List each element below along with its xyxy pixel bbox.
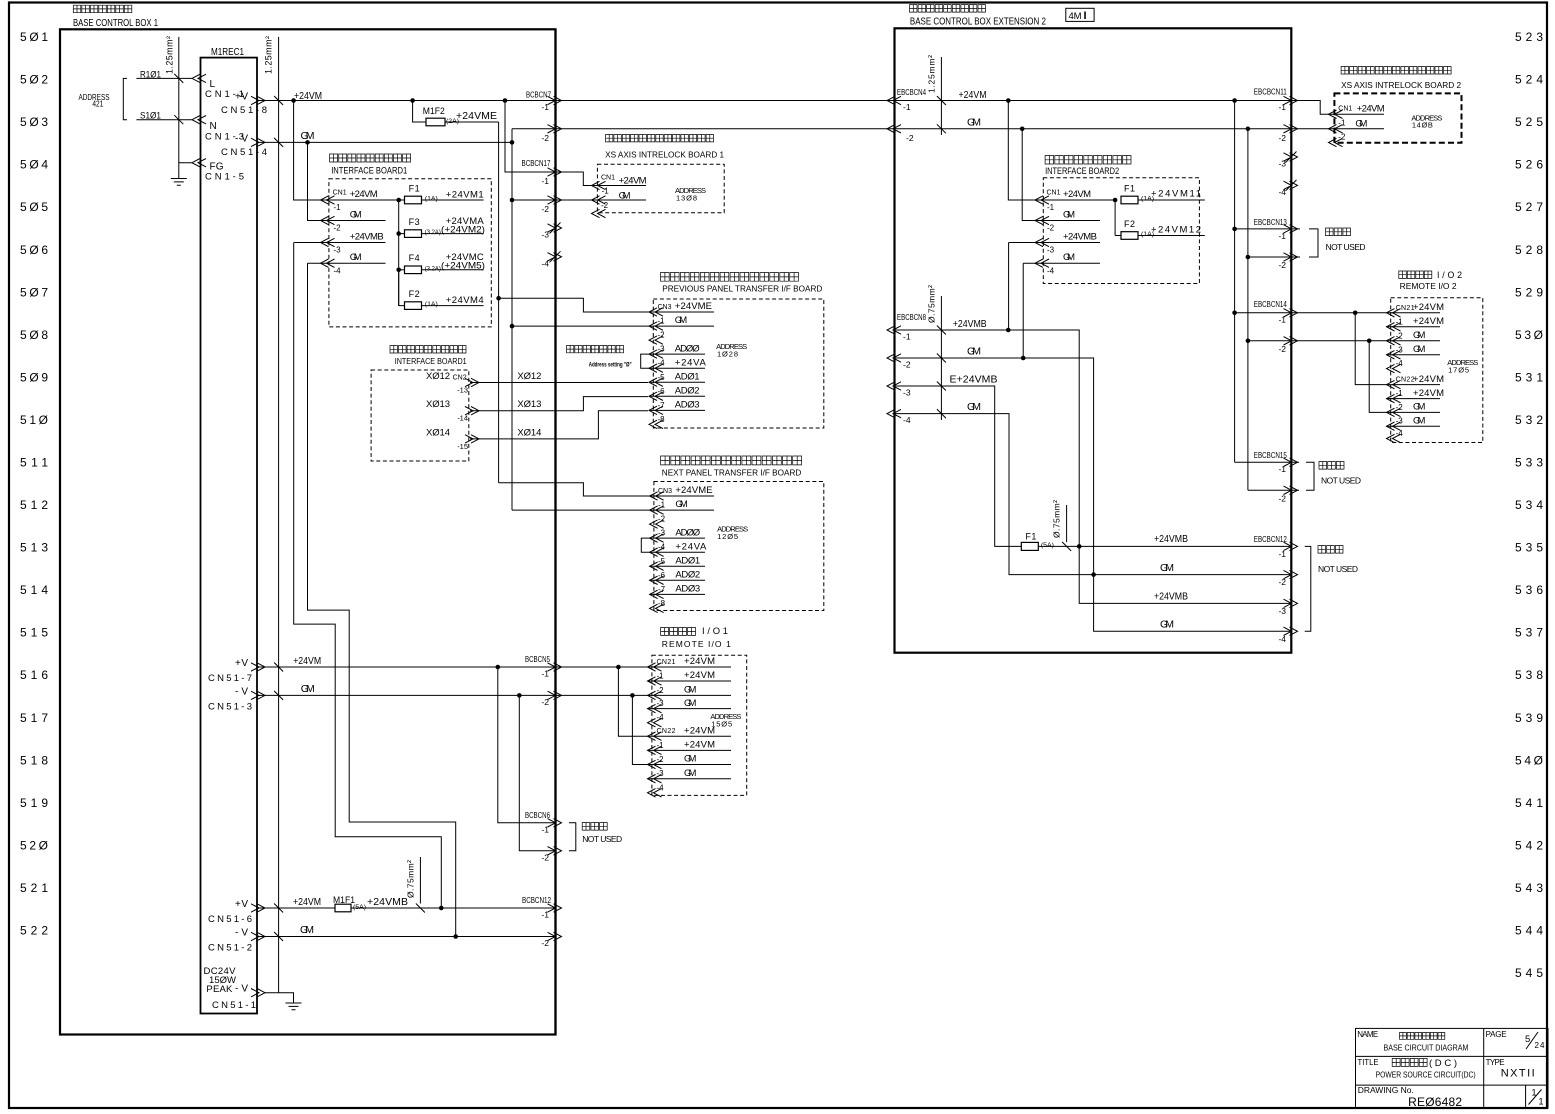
svg-text:CN1: CN1 [333,190,347,197]
svg-text:-3: -3 [1278,606,1286,616]
fuse F1 (1A) board1 [405,184,484,204]
address bracket ADDRESS 421 [79,78,128,119]
svg-text:-3: -3 [334,246,342,255]
svg-text:+24VMB: +24VMB [953,318,987,330]
svg-text:-1: -1 [1047,203,1055,212]
svg-text:TITLE: TITLE [1358,1058,1379,1067]
pin CN51-1 -V [212,984,265,1011]
node row517/BCBCN6-2 [517,693,522,698]
svg-text:I: I [1084,10,1087,22]
grid row numbers right 523-545 [1515,30,1543,980]
remote I/O 2 board [1391,270,1483,443]
connector BCBCN17 [522,159,562,214]
svg-text:GM: GM [967,346,981,358]
wire GM EBCBCN8-2 to EBCBCN12-4 [895,346,1292,632]
svg-text:-14: -14 [457,414,468,423]
svg-text:-2: -2 [541,133,549,143]
svg-text:+24VM: +24VM [293,896,321,908]
svg-text:522: 522 [20,924,48,938]
svg-text:-V: -V [235,133,248,144]
svg-text:538: 538 [1515,668,1543,682]
node IF1 F4 tee [396,268,401,273]
node row516/BCBCN6-1 [496,665,501,670]
wire GM to IF1 CN1-2 [308,142,386,220]
svg-text:525: 525 [1515,115,1543,129]
svg-text:REØ6482: REØ6482 [1408,1095,1462,1109]
svg-text:-2: -2 [1396,403,1404,412]
svg-text:+24VM: +24VM [1413,388,1444,399]
svg-text:EBCBCN13: EBCBCN13 [1254,218,1287,227]
svg-text:537: 537 [1515,626,1543,640]
svg-text:F1: F1 [409,184,420,194]
svg-text:-3: -3 [903,388,911,398]
svg-text:F4: F4 [409,253,420,263]
svg-text:516: 516 [20,668,48,682]
svg-text:-1: -1 [903,332,911,342]
wire-gauge marker 1.25mm2 / earth line [264,36,284,993]
svg-text:1.25mm²: 1.25mm² [165,36,175,74]
svg-text:EBCBCN4: EBCBCN4 [897,88,926,97]
svg-text:+24VMB: +24VMB [1154,591,1188,603]
fuse F3 (3.2A) board1 [399,216,485,237]
XS axis interlock board 2 [1329,67,1462,147]
node remote2 CN22-2 tee [1367,339,1372,344]
svg-text:1.25mm²: 1.25mm² [927,55,937,93]
connector EBCBCN14 [1254,300,1298,354]
svg-text:EBCBCN8: EBCBCN8 [897,313,926,322]
wire -V CN51-1 to ground [265,993,294,1003]
svg-text:GM: GM [967,117,981,129]
svg-text:512: 512 [20,498,48,512]
svg-text:-4: -4 [1278,634,1286,644]
svg-text:CN1: CN1 [1047,190,1061,197]
svg-text:NAME: NAME [1357,1030,1378,1039]
pin IF2 CN1-4 [1035,252,1075,276]
svg-text:F2: F2 [1124,219,1135,229]
node GM/IF2 CN1-4 [1021,356,1026,361]
pin IF2 CN1-1 [1035,189,1091,212]
node +24VMB/row521 [439,906,444,911]
svg-text:+24VMB: +24VMB [367,896,408,908]
svg-text:XØ13: XØ13 [426,399,450,410]
node EBCBCN13-2 tee [1246,255,1251,260]
svg-text:NEXT PANEL TRANSFER I/F BOARD: NEXT PANEL TRANSFER I/F BOARD [662,467,802,477]
svg-text:EBCBCN11: EBCBCN11 [1254,88,1287,97]
svg-text:CN1-5: CN1-5 [205,172,244,183]
wire GM EBCBCN8-4 to EBCBCN12-2 [895,401,1292,575]
svg-text:+24VM4: +24VM4 [446,295,484,306]
svg-text:-8: -8 [658,415,666,424]
svg-text:CN22: CN22 [657,728,676,735]
label GM box2 [967,117,981,129]
pin IF1 CN1-4 [321,252,386,276]
wire GM to IF1 CN1-4 [308,263,456,936]
node row516/CN22 [616,665,621,670]
label GM EBCBCN12-2 [1160,562,1174,574]
connector EBCBCN13 [1254,218,1298,270]
svg-text:+24VM: +24VM [1063,189,1091,200]
svg-text:544: 544 [1515,924,1543,938]
svg-text:GM: GM [301,683,315,695]
svg-text:GM: GM [1063,252,1075,263]
svg-text:CN21: CN21 [657,659,676,666]
svg-text:F1: F1 [1025,532,1036,542]
wire EBCBCN15-2 [1248,489,1299,491]
svg-text:GM: GM [1355,118,1367,129]
label +24VMB row521 [367,896,408,908]
pin CN51-7 +V [208,658,265,684]
wire +24VMB fuse out to EBCBCN12-1 [1038,533,1291,546]
svg-text:GM: GM [684,768,696,779]
svg-text:+24VM: +24VM [684,740,715,751]
svg-text:545: 545 [1515,966,1543,980]
svg-text:ADØØ: ADØØ [675,527,700,538]
connector BCBCN5 [525,655,562,707]
power supply M1REC1 box [201,47,258,1014]
interface board 1 CN2 [371,346,469,462]
svg-text:-1: -1 [541,825,549,835]
wire GM row522 [257,924,556,937]
svg-text:POWER SOURCE CIRCUIT(DC): POWER SOURCE CIRCUIT(DC) [1376,1070,1476,1080]
svg-text:ADØ3: ADØ3 [675,584,700,595]
wire +24VMB EBCBCN8-1 to EBCBCN12-3 [895,318,1292,603]
svg-text:CN21: CN21 [1396,305,1415,312]
wire EBCBCN13-1 [1235,228,1300,230]
svg-text:GM: GM [1413,330,1425,341]
svg-text:+24VM: +24VM [684,656,715,667]
svg-text:+24VMB: +24VMB [350,232,384,243]
svg-text:N: N [210,121,217,132]
ground CN51-1 [286,1003,302,1010]
svg-text:-1: -1 [541,176,549,186]
connector EBCBCN4 [887,88,926,143]
signal X014 [426,411,648,451]
svg-text:GM: GM [350,252,362,263]
pin IF2 CN1-3 [1035,232,1097,255]
svg-text:-2: -2 [657,755,665,764]
svg-text:+24VM1: +24VM1 [446,190,484,201]
wire riser +24VM right [1234,101,1236,463]
node GM/row522 [453,934,458,939]
svg-text:BCBCN7: BCBCN7 [526,91,551,100]
node GM/PREV CN3-1 [510,324,515,329]
svg-text:5Ø2: 5Ø2 [20,73,48,87]
address setting note [567,346,632,369]
fuse F1 (5A) box2 [1021,532,1054,551]
svg-text:-2: -2 [1278,344,1286,354]
svg-text:+24VM: +24VM [1413,374,1444,385]
svg-text:ADØØ: ADØØ [675,343,700,354]
grid row numbers left 501-522 [20,30,48,938]
svg-text:+24VM12: +24VM12 [1151,225,1201,236]
next panel transfer I/F board [654,456,824,611]
wire GM row517 [257,683,731,696]
wire FG to ground [179,163,192,179]
svg-text:-2: -2 [541,938,549,948]
wire-gauge marker 1.25mm2 left [165,36,184,163]
svg-text:532: 532 [1515,413,1543,427]
node GM riser/EBCBCN12-2 [1091,572,1096,577]
svg-text:-2: -2 [1047,224,1055,233]
wire BCBCN5-2 to BCBCN6-2 [519,695,555,850]
svg-text:+24VME: +24VME [675,301,712,312]
svg-text:526: 526 [1515,158,1543,172]
svg-text:+24VM: +24VM [684,670,715,681]
svg-text:-2: -2 [541,853,549,863]
svg-text:-1: -1 [1278,231,1286,241]
svg-text:533: 533 [1515,456,1543,470]
svg-text:PREVIOUS PANEL TRANSFER I/F BO: PREVIOUS PANEL TRANSFER I/F BOARD [662,284,822,294]
wire EBCBCN15-1 [1235,461,1299,463]
svg-text:+24VME: +24VME [456,110,497,122]
svg-text:-2: -2 [658,331,666,340]
svg-text:XØ12: XØ12 [517,371,541,382]
svg-text:BCBCN6: BCBCN6 [525,811,550,820]
node +24VM/M1F2 [410,98,415,103]
svg-text:M1F1: M1F1 [333,895,355,906]
svg-text:-5: -5 [658,557,666,566]
svg-text:5Ø3: 5Ø3 [20,115,48,129]
svg-text:515: 515 [20,626,48,640]
svg-text:52Ø: 52Ø [20,838,48,852]
wire +24VM row516 [257,655,731,667]
fuse F4 (3.2A) board1 [399,252,485,274]
svg-text:-4: -4 [1396,359,1404,368]
svg-text:-1: -1 [334,203,342,212]
svg-text:-3: -3 [1396,417,1404,426]
connector EBCBCN12 box2 [1254,535,1298,644]
svg-text:+24VMB: +24VMB [1154,533,1188,545]
svg-text:-5: -5 [658,373,666,382]
svg-text:+V: +V [235,899,248,910]
svg-text:-3: -3 [658,345,666,354]
svg-text:24: 24 [1535,1041,1546,1050]
address jumper NEXT -3/-4 [641,538,649,552]
svg-text:-4: -4 [1047,267,1055,276]
connector EBCBCN15 [1254,451,1298,504]
svg-text:-1: -1 [1396,389,1404,398]
svg-text:-V: -V [235,686,248,697]
wire GM to XS1 CN1-2 [512,199,646,201]
svg-text:NOT USED: NOT USED [1326,242,1366,252]
not-used bracket EBCBCN12 [1305,546,1358,632]
terminal S101 [136,111,192,122]
svg-text:-7: -7 [658,585,666,594]
svg-text:CN1: CN1 [601,175,615,182]
svg-text:+24VM: +24VM [293,655,321,667]
svg-text:GM: GM [1063,210,1075,221]
svg-text:INTERFACE BOARD1: INTERFACE BOARD1 [395,356,467,366]
svg-text:-3: -3 [658,529,666,538]
svg-text:(+24VM2): (+24VM2) [441,225,485,236]
svg-text:XØ12: XØ12 [426,371,450,382]
not-used bracket EBCBCN13 [1309,228,1366,257]
svg-text:XØ14: XØ14 [517,427,541,438]
node IF2 F1 in [1113,198,1118,203]
svg-text:+24VMB: +24VMB [1063,232,1097,243]
svg-text:529: 529 [1515,285,1543,299]
svg-text:ADØ2: ADØ2 [675,570,700,581]
svg-text:-4: -4 [657,713,665,722]
wire EBCBCN11-1 to XS2 CN1 [1291,101,1384,115]
wire +24VM main (CN51-8 to EBCBCN11-1) [257,90,1291,102]
svg-text:54Ø: 54Ø [1515,753,1543,767]
svg-text:+24VM: +24VM [1413,316,1444,327]
svg-text:-V: -V [235,928,248,939]
svg-text:5Ø9: 5Ø9 [20,370,48,384]
svg-text:TYPE: TYPE [1486,1058,1505,1067]
wire-gauge marker 0.75mm2 row521 [406,857,425,913]
pin IF1 CN1-2 [321,210,362,233]
box1 right edge [554,29,556,1034]
svg-text:5Ø1: 5Ø1 [20,30,48,44]
svg-text:528: 528 [1515,243,1543,257]
connector EBCBCN11 [1254,88,1298,198]
wire EBCBCN11-2 to XS2 CN1-2 [1291,128,1384,130]
wire E+24VMB EBCBCN8-3 to fuse F1 [895,374,1022,547]
connector EBCBCN8 [887,313,926,425]
svg-text:EBCBCN14: EBCBCN14 [1254,300,1287,309]
label +24VMB EBCBCN12-3 [1154,591,1188,603]
wire EBCBCN14-1 to CN21 [1235,312,1440,314]
svg-text:INTERFACE BOARD1: INTERFACE BOARD1 [331,166,407,176]
wire +24VMB to IF1 CN1-3 [294,243,442,909]
svg-text:517: 517 [20,711,48,725]
wire GM riser to BCBCN7-2 and boards [511,129,513,510]
svg-text:-7: -7 [658,401,666,410]
label +24VM box2 [959,89,987,101]
connector BCBCN7 [526,91,562,269]
svg-text:GM: GM [1160,562,1174,574]
svg-text:-2: -2 [541,697,549,707]
svg-text:+24VM: +24VM [619,176,647,187]
svg-text:+24VM: +24VM [1413,302,1444,313]
svg-text:-4: -4 [334,267,342,276]
svg-text:EBCBCN15: EBCBCN15 [1254,451,1287,460]
pin CN1-1 L [192,74,244,100]
svg-text:F3: F3 [409,217,420,227]
svg-text:-3: -3 [657,769,665,778]
svg-text:-1: -1 [658,317,666,326]
svg-text:+24VM: +24VM [294,90,322,102]
svg-text:+24VME: +24VME [675,485,712,496]
svg-text:CN3: CN3 [658,304,672,311]
svg-text:GM: GM [684,698,696,709]
signal X013 [426,397,648,423]
svg-text:536: 536 [1515,583,1543,597]
svg-text:-3: -3 [1396,345,1404,354]
svg-text:-4: -4 [541,259,549,269]
not-used bracket EBCBCN15 [1306,462,1361,491]
pin CN51-8 +V [221,92,267,117]
svg-text:-1: -1 [1278,464,1286,474]
svg-text:13Ø8: 13Ø8 [676,194,697,203]
svg-text:53Ø: 53Ø [1515,328,1543,342]
svg-text:Ø.75mm²: Ø.75mm² [1052,500,1062,538]
previous panel transfer I/F board [653,273,824,429]
svg-text:5Ø8: 5Ø8 [20,328,48,342]
svg-text:-3: -3 [1047,246,1055,255]
label DC24V 150W PEAK [204,966,237,995]
pin IF1 CN1-3 [321,232,386,255]
enclosure BASE CONTROL BOX EXTENSION 2 [895,5,1292,653]
svg-text:-1: -1 [1396,317,1404,326]
svg-text:XØ14: XØ14 [426,427,450,438]
pin CN1-3 N [192,116,244,143]
svg-text:12Ø5: 12Ø5 [717,532,738,541]
svg-text:-8: -8 [658,599,666,608]
svg-text:-4: -4 [657,783,665,792]
svg-text:-13: -13 [457,386,468,395]
svg-text:51Ø: 51Ø [20,413,48,427]
svg-text:-3: -3 [1278,159,1286,169]
wire +24VM to IF2 CN1-1 [1008,101,1115,201]
svg-text:-2: -2 [334,224,342,233]
next board pins CN3-1..8 [650,485,714,612]
svg-text:513: 513 [20,541,48,555]
pin CN51-2 -V [208,928,265,954]
svg-text:541: 541 [1515,796,1543,810]
svg-text:F2: F2 [409,289,420,299]
svg-text:531: 531 [1515,370,1543,384]
svg-text:ADØ2: ADØ2 [675,386,700,397]
svg-text:534: 534 [1515,498,1543,512]
svg-text:-2: -2 [1278,577,1286,587]
fuse F2 (1A) board2 [1115,219,1205,239]
node EBCBCN14-2 tee [1246,339,1251,344]
svg-text:521: 521 [20,881,48,895]
svg-text:-1: -1 [541,102,549,112]
wire GM to IF2 CN1-4 [1023,263,1100,358]
svg-text:Ø.75mm²: Ø.75mm² [927,285,937,323]
svg-text:-6: -6 [658,571,666,580]
svg-text:421: 421 [92,100,103,109]
svg-text:(5A): (5A) [353,905,366,911]
wire-gauge marker 1.25mm2 box2 [927,55,946,135]
wire BCBCN5-1 to BCBCN6-1 [498,667,556,823]
svg-text:GM: GM [684,685,696,696]
label GM EBCBCN12-4 [1160,619,1174,631]
svg-text:F1: F1 [1124,184,1135,194]
svg-text:GM: GM [675,499,687,510]
fuse F1 (1A) board2 [1121,184,1205,204]
svg-text:+24VM11: +24VM11 [1151,189,1201,200]
svg-text:1Ø28: 1Ø28 [717,350,738,359]
svg-text:-6: -6 [658,387,666,396]
svg-text:542: 542 [1515,838,1543,852]
wire +24VM to BCBCN17-1/XS1 CN1 [505,101,646,186]
svg-text:BASE CIRCUIT DIAGRAM: BASE CIRCUIT DIAGRAM [1384,1043,1469,1053]
address jumper PREV -3/-4 [641,354,649,368]
svg-text:-3: -3 [657,699,665,708]
svg-text:543: 543 [1515,881,1543,895]
svg-text:-1: -1 [1278,549,1286,559]
svg-text:-2: -2 [1278,494,1286,504]
svg-text:-1: -1 [903,102,911,112]
svg-text:NOT USED: NOT USED [582,834,622,844]
svg-text:GM: GM [967,401,981,413]
svg-text:GM: GM [1160,619,1174,631]
svg-text:Address setting "Ø": Address setting "Ø" [589,362,632,369]
svg-text:-2: -2 [1278,133,1286,143]
svg-text:-2: -2 [1396,331,1404,340]
svg-text:CN22: CN22 [1396,377,1415,384]
interface board 1 [329,154,491,327]
wire +24VME to PREV CN3 [499,298,714,312]
wire to remote2 CN22 [1355,313,1440,385]
svg-text:-2: -2 [906,133,914,143]
svg-text:GM: GM [684,754,696,765]
